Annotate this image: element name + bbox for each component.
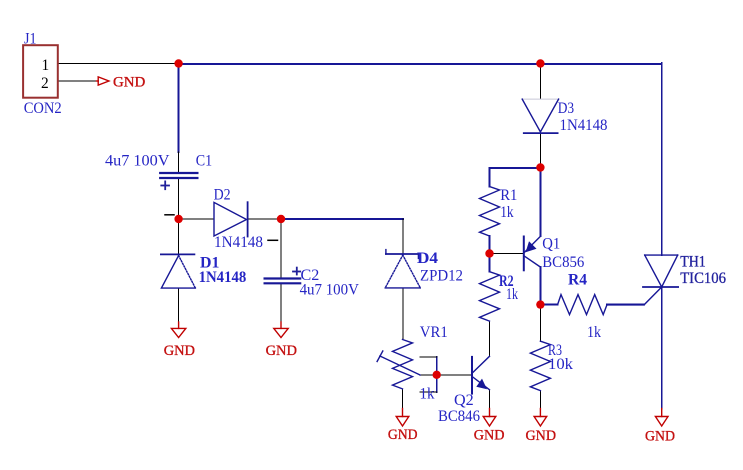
svg-text:4u7 100V: 4u7 100V [105, 152, 170, 169]
svg-text:J1: J1 [24, 30, 37, 47]
svg-text:GND: GND [474, 427, 505, 443]
svg-text:VR1: VR1 [420, 324, 448, 341]
svg-text:10k: 10k [548, 356, 573, 373]
svg-text:CON2: CON2 [24, 100, 62, 117]
svg-text:ZPD12: ZPD12 [420, 268, 463, 285]
svg-text:GND: GND [266, 343, 297, 359]
svg-text:GND: GND [113, 75, 145, 91]
svg-text:1: 1 [42, 57, 50, 74]
svg-text:D3: D3 [558, 100, 575, 117]
svg-text:TIC106: TIC106 [680, 270, 726, 287]
svg-text:GND: GND [164, 343, 195, 359]
svg-text:1N4148: 1N4148 [199, 269, 247, 286]
svg-text:GND: GND [526, 428, 557, 444]
svg-text:TH1: TH1 [680, 254, 706, 271]
svg-text:GND: GND [388, 427, 418, 443]
svg-text:4u7 100V: 4u7 100V [300, 282, 359, 299]
svg-text:BC846: BC846 [438, 408, 480, 425]
svg-text:BC856: BC856 [542, 254, 584, 271]
svg-text:1k: 1k [420, 386, 435, 403]
svg-text:1k: 1k [506, 286, 518, 303]
svg-text:C1: C1 [196, 153, 212, 170]
svg-text:1k: 1k [587, 324, 601, 341]
svg-text:D4: D4 [417, 250, 438, 267]
svg-text:Q1: Q1 [542, 236, 560, 253]
svg-text:1N4148: 1N4148 [214, 234, 263, 251]
svg-text:D2: D2 [214, 187, 231, 204]
svg-text:R4: R4 [568, 272, 587, 289]
svg-text:1N4148: 1N4148 [560, 117, 608, 134]
svg-text:GND: GND [645, 429, 675, 445]
svg-text:2: 2 [41, 75, 49, 92]
svg-text:1k: 1k [500, 204, 514, 221]
svg-text:Q2: Q2 [454, 392, 474, 409]
svg-text:R1: R1 [500, 187, 517, 204]
